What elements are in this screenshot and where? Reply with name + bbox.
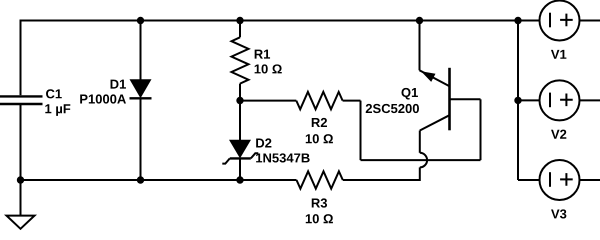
node top-D1 xyxy=(137,17,144,24)
label V2 xyxy=(551,130,566,139)
wire collector riser lower xyxy=(419,167,421,181)
wire V3 left xyxy=(518,179,540,181)
wire V1 right xyxy=(580,20,600,22)
label V3 xyxy=(551,209,566,218)
label R2 value xyxy=(306,134,333,143)
wire bottom rail left xyxy=(21,179,297,181)
wire R1 bottom xyxy=(239,84,241,101)
node gnd rail xyxy=(17,176,24,183)
wire V2 left xyxy=(518,99,540,101)
label V1 xyxy=(551,50,566,59)
wire left rail upper xyxy=(20,20,22,96)
wire base tap xyxy=(450,98,481,100)
wire D2 bottom xyxy=(239,158,241,180)
wire left rail lower xyxy=(20,104,22,216)
node D1 bottom xyxy=(137,176,144,183)
wire V2 right xyxy=(580,99,600,101)
node R1-R2-D2 xyxy=(236,97,243,104)
capacitor C1 xyxy=(0,96,43,104)
resistor R2 xyxy=(296,92,342,109)
label D2 xyxy=(256,138,271,147)
diode D1 xyxy=(130,79,152,98)
label C1 xyxy=(46,89,62,98)
resistor R3 xyxy=(297,171,343,188)
wire R2 right xyxy=(343,100,361,102)
wire base horizontal xyxy=(361,159,481,161)
node D2 bottom xyxy=(236,176,243,183)
wire D1 top xyxy=(140,21,142,80)
wire V1 left xyxy=(518,20,540,22)
node top-R1 xyxy=(236,17,243,24)
label 2SC5200 xyxy=(366,104,419,113)
wire hop xyxy=(420,153,427,168)
zener diode D2 xyxy=(222,140,258,164)
node top-Q1 xyxy=(416,17,423,24)
transistor Q1 xyxy=(419,21,449,131)
wire collector riser upper xyxy=(419,131,421,153)
source V2 xyxy=(540,80,580,120)
label R2 xyxy=(312,118,327,127)
label R3 value xyxy=(306,214,333,223)
resistor R1 xyxy=(232,37,249,83)
wire R1 top xyxy=(239,21,241,38)
label R1 value xyxy=(255,64,282,73)
label D1 xyxy=(111,80,126,89)
wire bottom rail right xyxy=(343,179,420,181)
wire D2 top xyxy=(239,101,241,141)
node top-bus xyxy=(514,17,521,24)
wire V3 right xyxy=(580,179,600,181)
label P1000A xyxy=(80,94,126,103)
source V3 xyxy=(540,160,580,200)
wire top rail xyxy=(21,20,540,22)
label R1 xyxy=(255,50,270,59)
ground xyxy=(7,216,35,229)
label R3 xyxy=(312,198,327,207)
label 1N5347B xyxy=(256,153,310,162)
label 1 uF xyxy=(45,104,70,116)
label Q1 xyxy=(401,88,417,100)
wire base riser xyxy=(480,99,482,160)
wire R2 left xyxy=(240,100,296,102)
node bus-V2 xyxy=(514,97,521,104)
wire V bus xyxy=(517,21,519,181)
wire base drop xyxy=(360,101,362,161)
wire D1 bottom xyxy=(140,98,142,180)
source V1 xyxy=(540,1,580,41)
